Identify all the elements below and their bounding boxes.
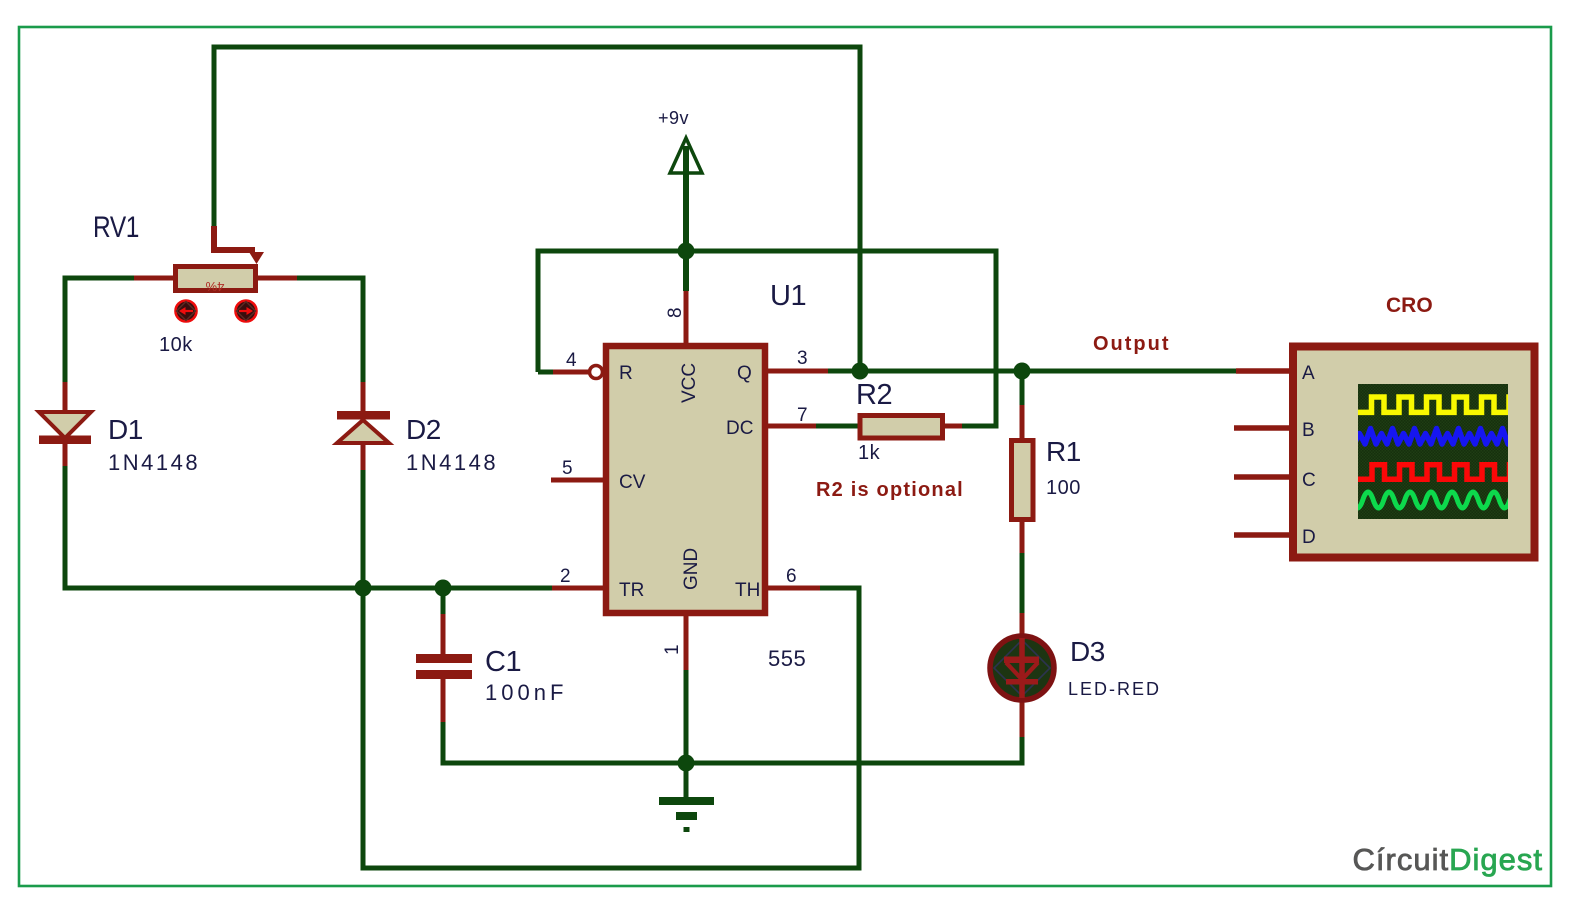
ground — [659, 797, 714, 832]
R2 right lead — [945, 424, 962, 429]
wire RV1 right terminal to D2 cathode — [297, 278, 363, 382]
wire pin7 to R2 left — [816, 424, 858, 429]
power arrow symbol — [670, 138, 702, 173]
D3 cathode lead — [1020, 696, 1025, 737]
svg-text:3: 3 — [797, 348, 808, 369]
svg-text:4%: 4% — [205, 279, 224, 294]
svg-text:10k: 10k — [159, 334, 193, 356]
wire C1 top — [441, 586, 446, 615]
svg-text:TR: TR — [619, 580, 644, 601]
svg-text:LED-RED: LED-RED — [1068, 679, 1161, 699]
wire pin1 ground stem — [684, 670, 689, 797]
svg-text:D3: D3 — [1070, 636, 1105, 667]
diode D1 — [39, 382, 200, 475]
CRO red square trace — [1354, 465, 1537, 480]
wire RV1 left terminal to D1 anode — [65, 278, 134, 382]
wire reset loop pin4 to +9v rail to R2 right — [538, 251, 996, 426]
svg-text:VCC: VCC — [679, 363, 700, 403]
D1 cathode lead — [63, 444, 68, 466]
svg-text:U1: U1 — [770, 280, 806, 312]
svg-text:C1: C1 — [485, 646, 521, 678]
svg-text:D2: D2 — [406, 414, 441, 445]
svg-text:100: 100 — [1046, 477, 1081, 499]
R1 top lead — [1020, 405, 1025, 440]
node +9v junction — [678, 243, 695, 260]
net label Output — [1093, 333, 1171, 355]
U1 pin 3 lead — [768, 369, 828, 374]
svg-text:8: 8 — [665, 307, 686, 318]
D1 cathode bar — [39, 436, 91, 445]
svg-text:R2 is optional: R2 is optional — [816, 479, 964, 501]
R1 body — [1012, 441, 1034, 520]
svg-text:4: 4 — [566, 350, 577, 371]
D3 body circle — [990, 636, 1054, 700]
svg-text:7: 7 — [797, 405, 808, 426]
C1 bottom lead — [441, 679, 446, 722]
svg-text:Q: Q — [737, 363, 752, 384]
svg-text:CRO: CRO — [1386, 294, 1433, 317]
svg-text:R: R — [619, 363, 633, 384]
node D2-TR junction — [355, 580, 372, 597]
wire ground rail from C1 to D3 cathode — [443, 722, 1022, 763]
power +9v — [658, 108, 702, 173]
D2 cathode lead — [361, 382, 366, 412]
RV1 actuator decrement button — [176, 301, 197, 322]
resistor R1 — [1012, 405, 1081, 553]
svg-text:C: C — [1302, 470, 1316, 491]
svg-text:B: B — [1302, 420, 1315, 441]
U1 pin 6 lead — [768, 586, 820, 591]
potentiometer RV1 — [93, 211, 297, 356]
svg-text:D1: D1 — [108, 414, 143, 445]
svg-text:100nF: 100nF — [485, 680, 567, 705]
svg-text:DC: DC — [726, 418, 753, 439]
CircuitDigest logo — [1353, 842, 1543, 877]
R1 bottom lead — [1020, 520, 1025, 553]
CRO yellow square trace — [1354, 397, 1537, 412]
RV1 body — [176, 267, 256, 291]
CRO pin D lead — [1234, 532, 1292, 538]
svg-text:CV: CV — [619, 472, 646, 493]
svg-text:CírcuitDigest: CírcuitDigest — [1353, 842, 1543, 877]
svg-text:1: 1 — [662, 644, 683, 655]
CRO green sine trace — [1342, 492, 1542, 508]
U1 pin 5 lead — [551, 478, 606, 483]
svg-text:TH: TH — [735, 580, 760, 601]
wire TH bottom loop — [361, 588, 860, 868]
svg-text:6: 6 — [786, 566, 797, 587]
wire D1 cathode to TR row — [63, 466, 68, 591]
wire vcc stem — [683, 150, 689, 291]
svg-text:1N4148: 1N4148 — [108, 450, 200, 475]
oscilloscope CRO — [1234, 294, 1535, 558]
diode D2 — [337, 382, 498, 475]
wire output column from top rail down to Q row — [858, 45, 863, 372]
node output junction — [1014, 363, 1031, 380]
svg-text:R1: R1 — [1046, 436, 1081, 467]
D2 cathode bar — [337, 411, 390, 420]
U1 reset bubble — [590, 366, 603, 379]
D1 triangle — [39, 412, 91, 438]
svg-text:2: 2 — [560, 566, 571, 587]
U1 pin 4 lead — [553, 370, 589, 375]
svg-text:555: 555 — [768, 646, 806, 671]
svg-text:5: 5 — [562, 458, 573, 479]
D3 diode symbol — [1019, 638, 1025, 698]
CRO screen — [1358, 384, 1508, 519]
U1 pin 7 lead — [768, 424, 816, 429]
wire D2 anode column down to bottom loop — [361, 470, 366, 871]
C1 top plate — [416, 654, 472, 663]
U1 body — [606, 346, 765, 613]
U1 pin 1 lead — [684, 613, 689, 670]
CRO pin B lead — [1234, 425, 1292, 431]
node ground junction — [678, 755, 695, 772]
wire R1 bottom to D3 anode — [1020, 553, 1025, 613]
svg-text:A: A — [1302, 363, 1315, 384]
wire top feedback rail from RV1 wiper to output column — [214, 45, 860, 50]
CRO blue sine trace — [1354, 429, 1541, 445]
svg-text:R2: R2 — [856, 379, 892, 411]
RV1 actuator increment button — [236, 301, 257, 322]
IC U1 555 timer — [551, 280, 828, 671]
node Q feedback junction — [852, 363, 869, 380]
wire RV1 wiper drop — [212, 45, 217, 227]
CRO body — [1293, 347, 1535, 558]
RV1 pin 3 lead — [258, 276, 297, 281]
D3 anode lead — [1020, 613, 1025, 640]
svg-text:D: D — [1302, 527, 1316, 548]
wire TR row — [63, 586, 553, 591]
RV1 wiper arm — [214, 226, 255, 250]
D2 anode lead — [361, 443, 366, 470]
svg-text:+9v: +9v — [658, 108, 689, 128]
LED D3 — [990, 613, 1161, 737]
U1 pin 2 lead — [552, 586, 606, 591]
D1 anode lead — [63, 382, 68, 413]
wire output junction to R1 top — [1020, 371, 1025, 405]
note R2 is optional — [816, 479, 964, 501]
svg-text:1k: 1k — [858, 442, 881, 464]
svg-text:RV1: RV1 — [93, 211, 139, 244]
svg-text:GND: GND — [681, 548, 702, 590]
svg-text:Output: Output — [1093, 333, 1171, 355]
svg-text:1N4148: 1N4148 — [406, 450, 498, 475]
CRO pin C lead — [1234, 474, 1292, 480]
wire reset stub — [538, 370, 553, 375]
D2 triangle — [337, 420, 389, 443]
node C1-TR junction — [435, 580, 452, 597]
D3 diamond hatch — [994, 640, 1050, 696]
RV1 pin 1 lead — [134, 276, 173, 281]
C1 bottom plate — [416, 670, 472, 679]
resistor R2 — [856, 379, 962, 464]
C1 top lead — [441, 614, 446, 655]
capacitor C1 — [416, 614, 567, 722]
CRO pin A lead — [1236, 368, 1292, 374]
wire Q output row — [828, 369, 1236, 374]
R2 body — [860, 416, 943, 439]
U1 pin 8 lead — [684, 291, 689, 346]
